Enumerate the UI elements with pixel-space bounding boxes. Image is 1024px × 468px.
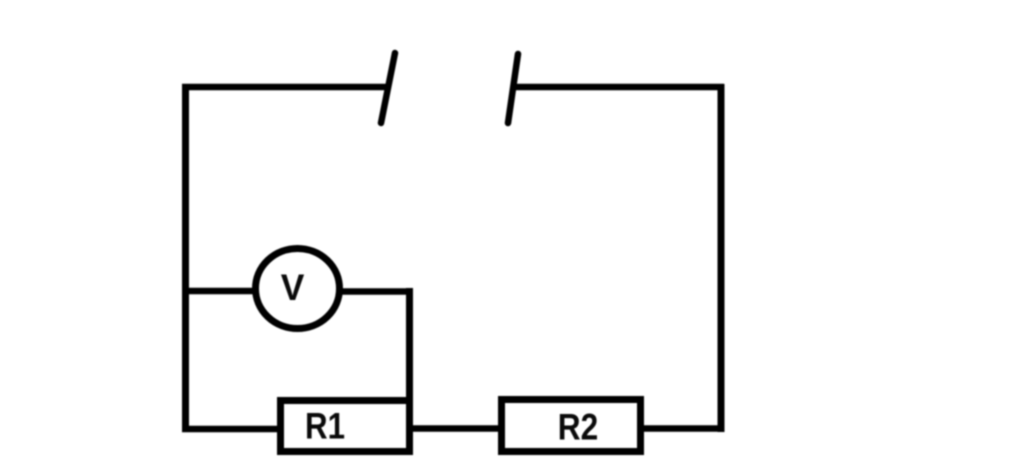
wire: top left horizontal segment [182, 84, 388, 91]
resistor R2 body [502, 400, 641, 452]
svg-text:R2: R2 [558, 407, 598, 448]
wire: voltmeter branch left, node junction on left wire [182, 288, 256, 295]
wire: voltmeter branch vertical drop to R1 right terminal [406, 288, 413, 400]
wire: bottom right segment from R2 [641, 425, 724, 432]
wire: right vertical side of outer loop [718, 84, 725, 432]
svg-text:V: V [281, 266, 305, 308]
svg-text:R1: R1 [305, 406, 345, 447]
wire: bottom left segment to R1 [182, 426, 281, 433]
resistor R1 body [281, 401, 410, 452]
wire: voltmeter branch right horizontal [339, 288, 413, 295]
wire: left vertical side of outer loop [182, 84, 189, 432]
wire: top right horizontal segment [513, 84, 724, 91]
switch contact: left slash of open switch SW1 [381, 53, 395, 123]
wire: bottom segment between R1 and R2 [410, 425, 500, 432]
switch contact: right slash of open switch SW1 [508, 54, 518, 123]
voltmeter V body circle [256, 249, 340, 329]
